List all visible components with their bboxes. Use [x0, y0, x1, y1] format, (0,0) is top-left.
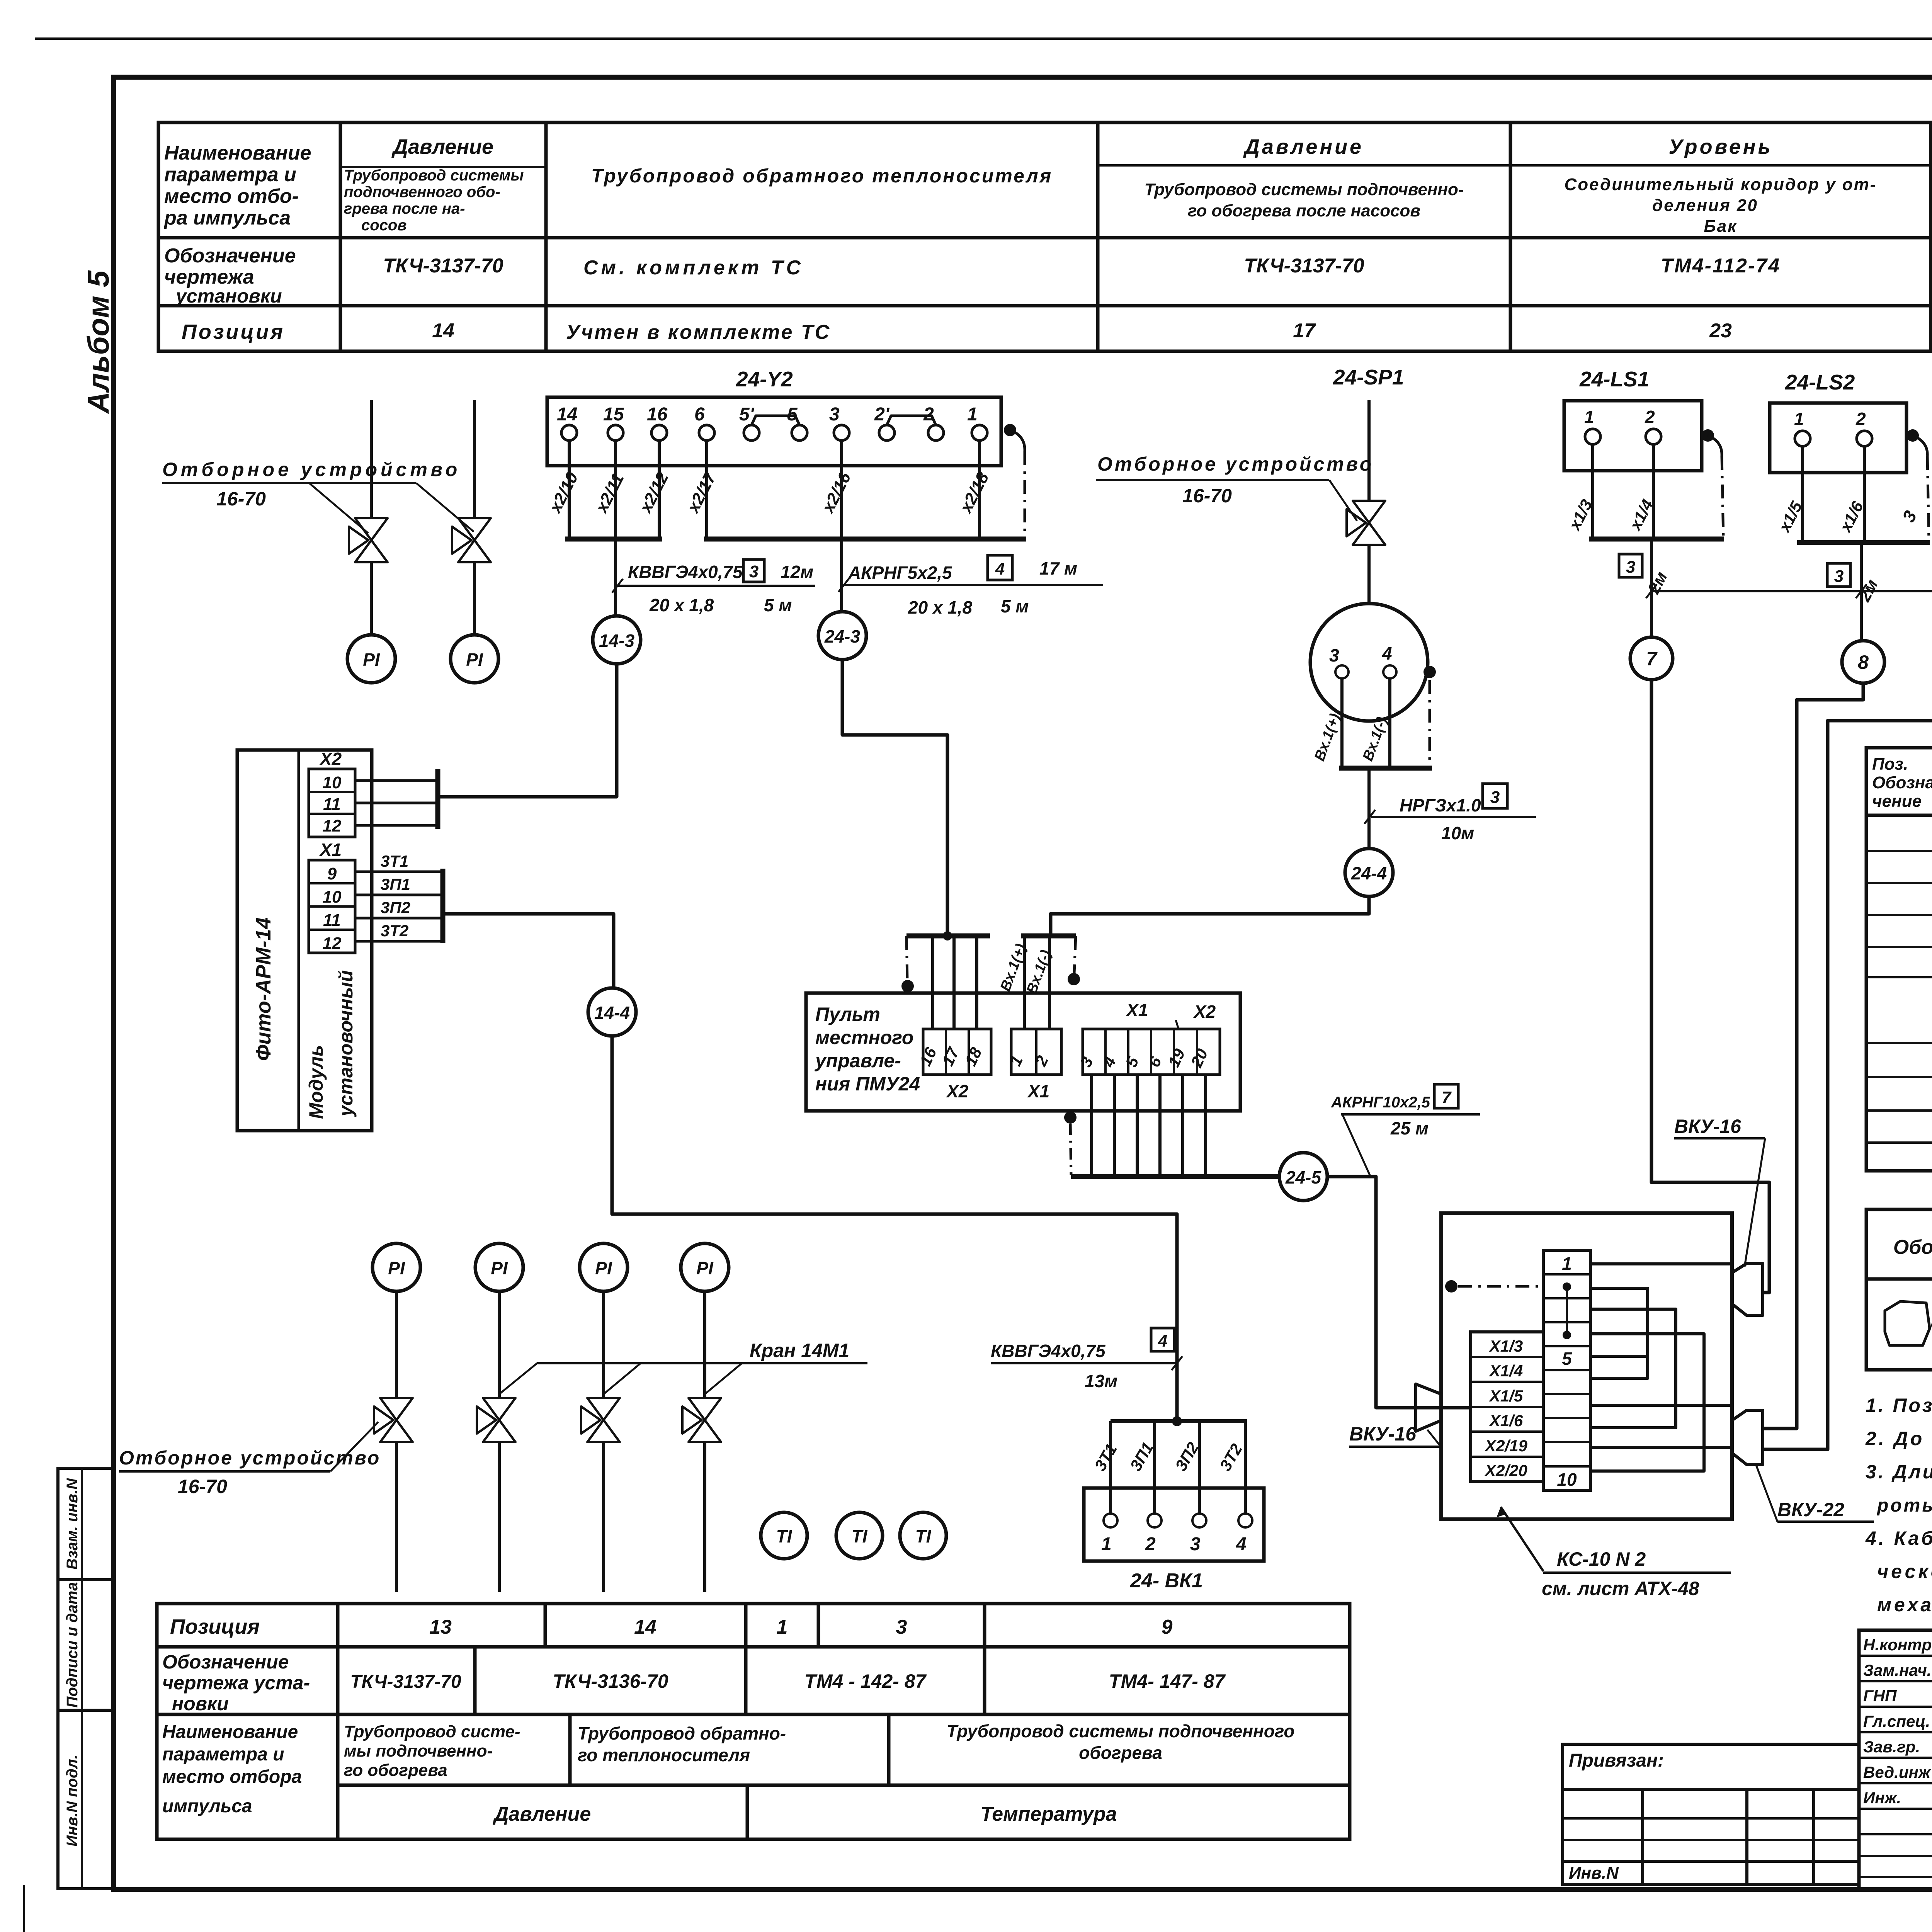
shield dot of LS2 [1906, 429, 1919, 442]
svg-text:3: 3 [896, 1616, 907, 1638]
svg-text:3: 3 [1190, 1534, 1201, 1554]
pressure gauge PI #3 [372, 1243, 420, 1291]
shield dash-dot of LS1 [1722, 456, 1723, 538]
wire stub 9 [1590, 1446, 1732, 1449]
svg-text:1: 1 [1562, 1253, 1572, 1274]
svg-text:9: 9 [327, 864, 337, 883]
svg-text:9: 9 [1162, 1616, 1173, 1638]
svg-text:14: 14 [432, 320, 454, 342]
label Кран 14М1 [537, 1362, 867, 1364]
svg-text:14-4: 14-4 [594, 1003, 630, 1023]
valve 14М1 #2 [477, 1398, 515, 1442]
svg-text:Инж.: Инж. [1863, 1789, 1901, 1807]
connector ВКУ-16 (right) [1732, 1264, 1763, 1315]
svg-text:ТМ4 - 142- 87: ТМ4 - 142- 87 [804, 1670, 927, 1692]
instrument circle 8 [1842, 641, 1884, 683]
svg-text:Зам.нач.: Зам.нач. [1863, 1661, 1931, 1679]
svg-text:Давление: Давление [1243, 135, 1364, 158]
svg-text:4: 4 [1382, 643, 1392, 663]
impulse line lower [602, 1443, 605, 1592]
cable bus into X1 strip [1021, 934, 1076, 939]
svg-text:13м: 13м [1085, 1371, 1117, 1391]
svg-text:Отборное устройство: Отборное устройство [119, 1447, 381, 1469]
svg-text:механизмов- в металлорукаве д: механизмов- в металлорукаве длиной 0,5м … [1877, 1594, 1932, 1616]
instrument circle 14-4 [588, 988, 636, 1036]
svg-text:14-3: 14-3 [599, 631, 634, 651]
svg-text:место отбора: место отбора [162, 1767, 302, 1787]
wire from terminal 14 [568, 440, 571, 539]
connector ВКУ-16 (left) [1416, 1384, 1441, 1431]
cable bus of LS1 [1589, 537, 1724, 542]
pressure gauge PI #1 [347, 635, 395, 683]
junction box КС-10 [1441, 1213, 1732, 1519]
svg-text:обогрева: обогрева [1079, 1743, 1162, 1763]
shield dot of LS1 [1702, 429, 1714, 442]
svg-text:Инв.N: Инв.N [1569, 1864, 1619, 1883]
svg-text:Позиция: Позиция [170, 1615, 260, 1638]
svg-text:17 м: 17 м [1039, 558, 1077, 578]
svg-text:3: 3 [829, 404, 840, 425]
wire from terminal 15 [614, 440, 617, 539]
wire 9 to ВКУ-22 [1763, 683, 1932, 1449]
svg-text:3: 3 [1490, 788, 1500, 807]
svg-text:PI: PI [595, 1258, 612, 1278]
valve 14М1 #4 [682, 1398, 721, 1442]
svg-text:5 м: 5 м [1001, 596, 1029, 616]
wire X2:11 [355, 802, 438, 804]
svg-text:12: 12 [323, 816, 342, 835]
svg-text:ра импульса: ра импульса [163, 207, 291, 229]
svg-text:го теплоносителя: го теплоносителя [578, 1745, 750, 1765]
svg-text:Обозначение: Обозначение [164, 245, 296, 267]
svg-text:1: 1 [967, 404, 978, 425]
КС-10 terminal strip 1..10 [1543, 1250, 1590, 1490]
control panel ПМУ24 box [806, 993, 1240, 1111]
thermometer TI [836, 1512, 883, 1559]
svg-text:АКРНГ10х2,5: АКРНГ10х2,5 [1331, 1094, 1430, 1111]
svg-text:20 х 1,8: 20 х 1,8 [649, 595, 714, 615]
svg-text:ВКУ-22: ВКУ-22 [1777, 1499, 1844, 1520]
shield dash-dot wire from 24-Y2 [1010, 430, 1025, 451]
svg-text:2. До нарезки кабеля длины тра: 2. До нарезки кабеля длины трасс уточнит… [1865, 1428, 1932, 1449]
svg-text:Модуль: Модуль [305, 1045, 327, 1119]
svg-text:24-4: 24-4 [1351, 863, 1387, 883]
svg-text:Наименование: Наименование [164, 142, 311, 164]
instrument circle 24-4 [1345, 849, 1393, 896]
svg-text:Н.контр.: Н.контр. [1863, 1636, 1932, 1654]
svg-text:3: 3 [1329, 645, 1339, 665]
svg-text:13: 13 [429, 1616, 452, 1638]
impulse line 1 lower [370, 563, 373, 635]
svg-text:TI: TI [776, 1526, 793, 1546]
wire to terminal [1109, 1421, 1112, 1514]
svg-text:3Т2: 3Т2 [381, 922, 408, 940]
jumper 2'-2 [887, 416, 936, 425]
svg-text:X2: X2 [1193, 1002, 1216, 1022]
device box Фито-АРМ-14 / Модуль установочный [237, 750, 372, 1131]
svg-text:ТМ4-112-74: ТМ4-112-74 [1661, 255, 1781, 277]
wire from LS1 terminal 2 [1652, 444, 1655, 539]
svg-text:2: 2 [1855, 409, 1866, 429]
svg-text:Вед.инж: Вед.инж [1863, 1763, 1931, 1781]
svg-text:Трубопровод обратно-: Трубопровод обратно- [578, 1723, 786, 1743]
svg-text:PI: PI [491, 1258, 508, 1278]
svg-text:мы подпочвенно-: мы подпочвенно- [344, 1742, 493, 1760]
svg-text:X1: X1 [319, 840, 342, 860]
shield dot on ПМУ24 [901, 980, 914, 992]
svg-text:новки: новки [172, 1693, 229, 1714]
wire to terminal [1153, 1421, 1156, 1514]
svg-text:КС-10 N 2: КС-10 N 2 [1557, 1548, 1646, 1570]
terminal 2 of LS2 [1857, 431, 1872, 446]
svg-text:PI: PI [696, 1258, 714, 1278]
svg-text:8: 8 [1858, 651, 1869, 673]
leader to valve 3 [604, 1363, 641, 1394]
connector ВКУ-22 (right) [1732, 1410, 1763, 1464]
wire from pin at x=3120 [1204, 1075, 1207, 1177]
terminal 1 of LS2 [1795, 431, 1810, 446]
impulse line lower [498, 1443, 501, 1592]
terminal 14 of 24-Y2 [561, 425, 577, 440]
svg-text:Обозначение: Обозначение [1893, 1236, 1932, 1259]
valve 14М1 #1 [374, 1398, 413, 1442]
wire to pin 17 [952, 936, 956, 1029]
svg-text:Гл.спец.: Гл.спец. [1863, 1712, 1930, 1730]
svg-text:Трубопровод обратного теплонос: Трубопровод обратного теплоносителя [591, 165, 1053, 187]
junction of 24-3 cable [943, 931, 952, 940]
terminal 4 of SP1 [1383, 665, 1396, 679]
wire from terminal 1 [978, 440, 981, 539]
svg-text:ТКЧ-3137-70: ТКЧ-3137-70 [1244, 255, 1364, 277]
thermometer TI [900, 1512, 946, 1559]
thermometer TI [761, 1512, 807, 1559]
svg-text:3. Длины кабелей даны с учетом: 3. Длины кабелей даны с учетом 6% надбав… [1866, 1461, 1932, 1483]
wire from pin at x=2825 [1090, 1075, 1093, 1177]
terminal 6 of 24-Y2 [699, 425, 714, 440]
svg-text:импульса: импульса [162, 1796, 252, 1816]
svg-text:Соединительный коридор у от-: Соединительный коридор у от- [1565, 175, 1877, 194]
svg-text:5: 5 [1562, 1349, 1572, 1369]
wire X1:9 (3Т1) [355, 871, 443, 873]
terminal 5 of 24-Y2 [792, 425, 807, 440]
shield dash-dot left [906, 936, 907, 980]
wire strip1 to ВКУ-16 [1590, 1262, 1732, 1265]
wire to terminal [1244, 1421, 1247, 1514]
wire to terminal [1198, 1421, 1201, 1514]
svg-text:Инв.N подл.: Инв.N подл. [64, 1755, 81, 1847]
wire X2:10 [355, 779, 438, 782]
cable bundle X2 [435, 769, 440, 829]
terminal circle [1238, 1514, 1252, 1527]
wire 14-3 to module X2 bus [440, 664, 617, 797]
svg-text:X1/3: X1/3 [1489, 1337, 1523, 1355]
svg-text:14: 14 [557, 404, 577, 425]
svg-text:24-Y2: 24-Y2 [736, 367, 793, 391]
svg-text:Давление: Давление [391, 135, 493, 158]
svg-text:16-70: 16-70 [178, 1476, 227, 1497]
svg-text:АКРНГ5х2,5: АКРНГ5х2,5 [848, 563, 952, 583]
svg-text:Наименование: Наименование [162, 1722, 298, 1742]
svg-text:X2: X2 [319, 749, 342, 769]
wire module to 14-4 [443, 914, 614, 988]
impulse line upper [395, 1291, 398, 1398]
svg-text:16-70: 16-70 [216, 488, 266, 510]
terminal 1 of 24-Y2 [972, 425, 987, 440]
svg-text:6: 6 [694, 404, 705, 425]
svg-text:11: 11 [323, 795, 341, 814]
wire to pin 1 [1023, 936, 1026, 1029]
ПМУ24 connector X2 (16,17,18) [923, 1029, 991, 1075]
instrument circle 24-5 [1279, 1153, 1327, 1201]
wire from terminal 16 [658, 440, 661, 539]
svg-text:Обозна-: Обозна- [1872, 773, 1932, 792]
svg-text:X1: X1 [1125, 1000, 1148, 1020]
svg-text:3Т1: 3Т1 [381, 852, 408, 870]
terminal 2 of LS1 [1646, 429, 1661, 444]
svg-text:4: 4 [1236, 1534, 1247, 1554]
svg-text:10: 10 [1557, 1469, 1577, 1490]
svg-text:24-LS1: 24-LS1 [1579, 367, 1649, 391]
wire 24-4 to ПМУ24 X1 bus [1051, 896, 1369, 936]
svg-text:Подписи и дата: Подписи и дата [64, 1582, 81, 1708]
wire from LS2 terminal 1 [1801, 446, 1804, 543]
wire from terminal 6 [705, 440, 708, 539]
pressure gauge PI #2 [451, 635, 498, 683]
impulse line upper [498, 1291, 501, 1398]
svg-text:PI: PI [363, 650, 380, 670]
left margin table [58, 1468, 113, 1889]
shield node dot of SP1 [1423, 666, 1436, 678]
svg-text:Фито-АРМ-14: Фито-АРМ-14 [252, 917, 275, 1061]
terminal circle [1104, 1514, 1117, 1527]
svg-text:X2/20: X2/20 [1484, 1461, 1527, 1480]
cable bus of 14-3 [565, 537, 662, 542]
svg-text:16-70: 16-70 [1182, 485, 1232, 507]
cable bundle X1 [440, 869, 446, 943]
svg-text:14: 14 [634, 1616, 656, 1638]
svg-text:17: 17 [1293, 320, 1316, 342]
svg-text:Давление: Давление [493, 1803, 591, 1825]
sheet top edge line [35, 37, 1932, 40]
svg-text:X1: X1 [1027, 1081, 1049, 1101]
sheet left edge segment [23, 1885, 25, 1932]
svg-text:16: 16 [647, 404, 668, 425]
svg-text:место отбо-: место отбо- [164, 185, 299, 207]
svg-text:11: 11 [323, 911, 341, 930]
cable mark box 3 [1827, 563, 1850, 587]
ПМУ24 connector X1/X2 (3,4,5,6,19,20) [1083, 1029, 1220, 1075]
svg-text:X1/6: X1/6 [1489, 1412, 1523, 1430]
wire from pin at x=2943 [1136, 1075, 1139, 1177]
svg-text:ТКЧ-3137-70: ТКЧ-3137-70 [383, 255, 503, 277]
svg-text:чертежа уста-: чертежа уста- [162, 1672, 310, 1694]
svg-text:1: 1 [1101, 1534, 1112, 1554]
leader to ВКУ-22 [1756, 1465, 1777, 1522]
wire 14-4 to 24-ВК1 [612, 1036, 1177, 1419]
cable bus of 24-3 [704, 537, 1026, 542]
wire bus to 24-3 [840, 539, 843, 612]
svg-text:1: 1 [777, 1616, 788, 1638]
shield dash-dot of LS2 [1927, 456, 1929, 541]
svg-text:3П1: 3П1 [381, 875, 410, 893]
shield dash-dot right [1074, 936, 1076, 973]
instrument circle 7 [1630, 637, 1673, 680]
shut-off valve 16-70 #2 [452, 518, 491, 562]
cable bus of SP1 [1339, 766, 1432, 771]
Привязан table [1563, 1744, 1859, 1884]
leader to left connector [1427, 1430, 1441, 1447]
svg-text:См. комплект ТС: См. комплект ТС [583, 257, 804, 279]
svg-text:X2/19: X2/19 [1484, 1437, 1527, 1455]
svg-text:3П2: 3П2 [381, 898, 410, 917]
parts list table [1866, 748, 1932, 1171]
svg-text:1. Позиции приборов и аппарату: 1. Позиции приборов и аппаратуры указаны… [1866, 1395, 1932, 1416]
svg-text:Взам. инв.N: Взам. инв.N [64, 1478, 81, 1570]
shield dot near X1 [1068, 973, 1080, 985]
svg-text:7: 7 [1646, 648, 1658, 670]
svg-text:TI: TI [915, 1526, 932, 1546]
svg-text:23: 23 [1709, 320, 1732, 342]
svg-text:сосов: сосов [361, 217, 407, 234]
wire 24-5 to КС-10 [1327, 1177, 1471, 1408]
svg-text:Трубопровод системы подпочве: Трубопровод системы подпочвенного [947, 1721, 1295, 1741]
signature table [1859, 1630, 1932, 1889]
leader to SP1 valve [1329, 480, 1357, 521]
svg-text:установки: установки [175, 285, 282, 307]
svg-text:12: 12 [323, 934, 342, 953]
cable designation НРГ3х1.0 [1651, 590, 1932, 592]
svg-text:X2: X2 [946, 1081, 969, 1101]
svg-text:Пульт: Пульт [815, 1003, 880, 1025]
svg-text:5 м: 5 м [764, 595, 792, 615]
wire from SP1 terminal 4 [1388, 679, 1391, 768]
svg-text:ния ПМУ24: ния ПМУ24 [815, 1073, 920, 1095]
wire from pin at x=3061 [1181, 1075, 1184, 1177]
svg-text:Отборное устройство: Отборное устройство [1097, 453, 1374, 475]
wire 24-3 to ПМУ24 X2 bus [842, 660, 947, 935]
shut-off valve 16-70 #1 [349, 518, 388, 562]
shield dot below ПМУ24 [1064, 1111, 1077, 1124]
svg-text:параметра и: параметра и [164, 163, 296, 186]
svg-text:роты и отходы согласно письму: роты и отходы согласно письму Госстроя С… [1876, 1495, 1932, 1516]
terminal 16 of 24-Y2 [651, 425, 667, 440]
impulse line SP1 lower [1367, 546, 1371, 604]
svg-text:1: 1 [1794, 409, 1804, 429]
svg-text:ГНП: ГНП [1863, 1687, 1897, 1705]
svg-text:24-SP1: 24-SP1 [1333, 365, 1404, 389]
terminal 2 of 24-Y2 [928, 425, 944, 440]
jumper 5'-5 [752, 416, 799, 425]
wire to pin 18 [975, 936, 978, 1029]
label КС-10 N 2 / см. лист АТХ-48 [1501, 1507, 1543, 1571]
pressure gauge PI #4 [475, 1243, 523, 1291]
wire from terminal 3 [840, 440, 843, 539]
wire X2:12 [355, 824, 438, 827]
wire 8 to ВКУ-22 [1763, 683, 1863, 1429]
svg-text:ТКЧ-3136-70: ТКЧ-3136-70 [553, 1670, 668, 1692]
svg-text:Позиция: Позиция [182, 320, 285, 344]
svg-text:24-LS2: 24-LS2 [1785, 370, 1855, 394]
svg-text:управле-: управле- [814, 1050, 901, 1071]
pressure gauge PI #5 [580, 1243, 628, 1291]
jumper 2-6 [1590, 1288, 1648, 1378]
svg-text:24- ВК1: 24- ВК1 [1130, 1570, 1203, 1592]
wire from pin at x=2884 [1113, 1075, 1116, 1177]
impulse line SP1 upper [1367, 400, 1371, 500]
box 24-ВК1 [1084, 1488, 1264, 1561]
svg-text:PI: PI [388, 1258, 405, 1278]
top parameter table [158, 122, 1932, 351]
leader to 24-5 wire [1342, 1114, 1370, 1175]
svg-text:2: 2 [1645, 407, 1655, 427]
svg-text:2: 2 [1145, 1534, 1156, 1554]
leader to valve 1 [309, 483, 368, 533]
impulse line upper [703, 1291, 706, 1398]
impulse line 2 upper [473, 400, 476, 518]
svg-text:Температура: Температура [980, 1803, 1117, 1825]
wire from pin at x=3002 [1158, 1075, 1162, 1177]
svg-text:15: 15 [603, 404, 624, 425]
svg-text:4: 4 [995, 560, 1005, 578]
terminal 15 of 24-Y2 [608, 425, 623, 440]
svg-text:Бак: Бак [1704, 217, 1738, 236]
shield node dot at 24-Y2 [1004, 424, 1016, 436]
sensor body 24-SP1 [1310, 604, 1428, 721]
svg-text:Привязан:: Привязан: [1569, 1750, 1664, 1771]
svg-text:местного: местного [815, 1027, 913, 1048]
instrument circle 14-3 [593, 616, 641, 664]
svg-text:10: 10 [323, 773, 342, 792]
wire X1:10 (3П1) [355, 894, 443, 896]
svg-text:Трубопровод системы: Трубопровод системы [344, 167, 524, 184]
svg-text:Учтен в комплекте ТС: Учтен в комплекте ТС [566, 321, 831, 344]
svg-text:3: 3 [749, 562, 759, 581]
svg-text:КВВГЭ4х0,75: КВВГЭ4х0,75 [991, 1341, 1106, 1361]
svg-text:ческой трубой , а от трубы до: ческой трубой , а от трубы до приборов, … [1877, 1561, 1932, 1582]
svg-text:3: 3 [1834, 567, 1844, 586]
svg-text:7: 7 [1442, 1088, 1452, 1107]
wire SP1 to 24-4 [1367, 768, 1371, 849]
legend table Обозначение/Наименование [1866, 1209, 1932, 1370]
wire to pin 16 [931, 936, 934, 1029]
instrument circle 24-3 [818, 612, 866, 660]
svg-text:10: 10 [323, 888, 342, 906]
svg-text:20 х 1,8: 20 х 1,8 [908, 597, 973, 617]
jumper 3-8 [1590, 1309, 1676, 1428]
svg-text:Зав.гр.: Зав.гр. [1863, 1738, 1920, 1756]
svg-text:3: 3 [1626, 558, 1635, 577]
svg-text:25 м: 25 м [1390, 1118, 1429, 1138]
svg-text:PI: PI [466, 650, 483, 670]
terminal 1 of LS1 [1585, 429, 1600, 444]
svg-text:TI: TI [852, 1526, 868, 1546]
svg-text:КВВГЭ4х0,75: КВВГЭ4х0,75 [628, 562, 743, 582]
svg-text:X1/4: X1/4 [1489, 1362, 1523, 1380]
svg-text:НРГЗх1.0: НРГЗх1.0 [1400, 795, 1481, 815]
leader to valve 2 [499, 1363, 537, 1394]
shut-off valve 16-70 #3 [1347, 501, 1385, 545]
legend symbol: cable lug with shield wire [1885, 1301, 1930, 1345]
impulse line lower [703, 1443, 706, 1592]
svg-text:Отборное устройство: Отборное устройство [162, 459, 461, 480]
svg-text:грева после на-: грева после на- [344, 200, 465, 217]
terminal 3 of SP1 [1335, 665, 1349, 679]
terminal 3 of 24-Y2 [834, 425, 849, 440]
svg-text:ВКУ-16: ВКУ-16 [1674, 1116, 1742, 1137]
pressure gauge PI #6 [681, 1243, 729, 1291]
valve 14М1 #3 [581, 1398, 620, 1442]
svg-text:установочный: установочный [335, 970, 357, 1117]
